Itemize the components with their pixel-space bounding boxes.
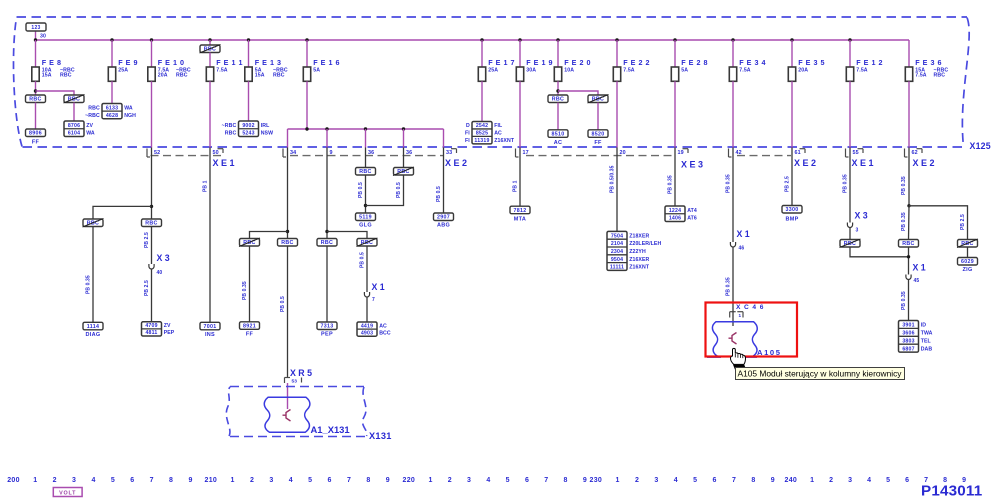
svg-text:3: 3	[654, 477, 658, 484]
svg-text:9: 9	[188, 477, 192, 484]
svg-text:~RBC: ~RBC	[222, 123, 237, 129]
connector symbol inside A105	[729, 333, 737, 345]
wire fuse output to connector	[908, 81, 910, 147]
svg-text:RBC: RBC	[361, 240, 373, 246]
fuse FE28 drop from bus	[673, 38, 676, 41]
connector XE3 dashed link	[526, 155, 676, 157]
svg-text:8: 8	[564, 477, 568, 484]
svg-text:19: 19	[678, 150, 684, 156]
svg-text:1: 1	[810, 477, 814, 484]
svg-text:2: 2	[829, 477, 833, 484]
svg-text:4: 4	[289, 477, 293, 484]
node 8921 FF	[240, 322, 260, 330]
nodes engine variants FE22	[607, 231, 627, 270]
wire FE9 output	[111, 81, 113, 103]
svg-text:2: 2	[635, 477, 639, 484]
svg-text:PEP: PEP	[321, 332, 333, 338]
wire branch right to ~RBC ZIG	[909, 206, 968, 240]
wire branch to ~RBC (FE20)	[558, 91, 598, 95]
svg-text:WA: WA	[86, 131, 95, 137]
wire ~RBC join to FE36 column	[850, 247, 909, 257]
svg-text:PEP: PEP	[164, 330, 175, 336]
svg-text:RBC: RBC	[902, 241, 914, 247]
node 7313 PEP	[317, 322, 337, 330]
fuse FE12 symbol	[846, 67, 853, 81]
option box RBC (pin9 main)	[317, 239, 337, 247]
svg-text:3300: 3300	[786, 207, 799, 213]
svg-text:240: 240	[785, 477, 798, 484]
svg-text:X 3: X 3	[855, 211, 868, 221]
svg-text:7.5A: 7.5A	[915, 73, 927, 79]
svg-text:5A: 5A	[681, 67, 688, 73]
svg-text:2: 2	[53, 477, 57, 484]
option box RBC (FE10 main)	[142, 219, 162, 227]
wire pin50 down	[209, 148, 211, 323]
svg-text:RBC: RBC	[29, 97, 41, 103]
wire fuse output to connector	[674, 81, 676, 147]
nodes 9002 IRL / 5243 NSW	[239, 121, 259, 137]
svg-text:1: 1	[231, 477, 235, 484]
wire pin9 down	[326, 148, 328, 239]
svg-text:9: 9	[330, 150, 333, 156]
node 1114 DIAG	[83, 322, 103, 330]
svg-text:X 1: X 1	[913, 263, 926, 273]
svg-text:3803: 3803	[902, 338, 914, 344]
wire drop to XE2	[326, 129, 328, 148]
svg-text:X C 4 6: X C 4 6	[736, 304, 764, 311]
pin 42 XE2	[728, 149, 730, 158]
wire RBC to 5119	[365, 175, 367, 213]
node 8906 FF	[26, 129, 46, 137]
svg-text:BCC: BCC	[379, 330, 391, 336]
module blob A1_X131	[264, 397, 310, 432]
svg-text:RBC: RBC	[204, 47, 216, 53]
fuse FE20 drop from bus	[556, 38, 559, 41]
wire fuse output to connector	[616, 81, 618, 147]
wire RBC to 7313	[326, 246, 328, 322]
wire pin52 down	[151, 148, 153, 220]
svg-text:36: 36	[368, 150, 374, 156]
svg-text:X 1: X 1	[372, 282, 385, 292]
svg-text:6133: 6133	[106, 105, 118, 111]
svg-text:PB 0.35: PB 0.35	[901, 176, 907, 195]
wire ~RBC merge to 36a	[366, 175, 404, 206]
svg-text:7: 7	[544, 477, 548, 484]
svg-text:F E 2 2: F E 2 2	[623, 58, 650, 67]
wire ~RBC to X1	[366, 246, 368, 292]
wire pin17 down	[519, 148, 521, 207]
wire RBC to X1	[908, 247, 910, 275]
junction FE36 branch	[907, 204, 910, 207]
wire fuse output to connector	[519, 81, 521, 147]
fuse FE8 drop from bus	[34, 38, 37, 41]
svg-text:F E 1 3: F E 1 3	[255, 58, 282, 67]
svg-text:ABG: ABG	[437, 223, 450, 229]
svg-text:8510: 8510	[552, 132, 565, 138]
fuse FE22 drop from bus	[615, 38, 618, 41]
svg-text:PB 0.35: PB 0.35	[668, 175, 674, 194]
highlight box around A105	[706, 303, 798, 357]
svg-text:RBC: RBC	[243, 240, 255, 246]
svg-text:F E 1 7: F E 1 7	[488, 58, 515, 67]
junction on FE16 bar	[402, 127, 405, 130]
svg-text:PB 2.5: PB 2.5	[960, 214, 966, 230]
svg-text:2: 2	[250, 477, 254, 484]
option box ~RBC (pin9 branch)	[357, 239, 377, 247]
wire XC46 bracket	[729, 312, 731, 318]
svg-text:PB 0.35: PB 0.35	[726, 174, 732, 193]
svg-text:17: 17	[523, 150, 529, 156]
svg-text:GLG: GLG	[359, 223, 372, 229]
svg-text:230: 230	[590, 477, 603, 484]
nodes 2542 FIL / 8525 AC / 11319 Z16XNT	[472, 122, 492, 144]
svg-text:~RBC: ~RBC	[85, 113, 100, 119]
node 2907 ABG	[434, 213, 454, 221]
pin 52 XE1	[146, 149, 148, 158]
svg-text:61: 61	[795, 150, 801, 156]
wire RBC to XR5	[287, 246, 289, 377]
svg-text:RBC: RBC	[145, 221, 157, 227]
svg-text:F E 9: F E 9	[118, 58, 138, 67]
fuse FE10 drop from bus	[150, 38, 153, 41]
wire X1 to radio nodes	[908, 280, 910, 321]
svg-text:X E 3: X E 3	[681, 160, 703, 170]
svg-text:8: 8	[366, 477, 370, 484]
wire FE20 output	[557, 81, 559, 95]
wire bus terminal 30	[36, 39, 910, 41]
fuse FE17 symbol	[478, 67, 485, 81]
wire X1 to 4419	[366, 298, 368, 323]
svg-text:52: 52	[154, 150, 160, 156]
svg-text:AC: AC	[554, 140, 563, 146]
pin 17 XE3	[515, 149, 517, 158]
svg-text:BMP: BMP	[785, 217, 798, 223]
svg-text:RBC: RBC	[592, 97, 604, 103]
svg-text:1114: 1114	[87, 324, 99, 330]
svg-text:FF: FF	[246, 332, 254, 338]
svg-text:RBC: RBC	[359, 169, 371, 175]
svg-text:7.5A: 7.5A	[739, 67, 751, 73]
svg-text:RBC: RBC	[60, 73, 72, 79]
junction FE16 bar	[305, 127, 308, 130]
svg-text:F E 3 6: F E 3 6	[915, 58, 942, 67]
wire ~RBC to 8921	[249, 246, 251, 322]
svg-text:ZIG: ZIG	[962, 267, 972, 273]
svg-text:RBC: RBC	[87, 221, 99, 227]
svg-text:4628: 4628	[106, 113, 118, 119]
svg-text:PB 0.35: PB 0.35	[86, 275, 92, 294]
wire RBC to 8906	[35, 103, 37, 130]
svg-text:7812: 7812	[514, 208, 527, 214]
svg-text:Z22YH: Z22YH	[629, 249, 646, 255]
nodes 3901 ID / 3606 TWA / 3803 TEL / 6807 DAB	[899, 321, 919, 353]
svg-text:25A: 25A	[488, 67, 498, 73]
svg-text:6029: 6029	[961, 259, 974, 265]
svg-text:20A: 20A	[798, 67, 808, 73]
nodes 4709 ZV / 4811 PEP	[142, 322, 162, 336]
svg-text:AC: AC	[494, 131, 502, 137]
svg-text:6: 6	[130, 477, 134, 484]
svg-text:RBC: RBC	[273, 73, 285, 79]
pin 34 XE2	[282, 149, 284, 158]
blue dashes below A105	[707, 356, 721, 358]
wire branch to ~RBC option	[36, 91, 75, 95]
svg-text:7001: 7001	[204, 324, 217, 330]
wire pin20 down	[616, 148, 618, 232]
svg-text:X E 1: X E 1	[852, 158, 874, 168]
svg-text:7: 7	[372, 297, 375, 303]
svg-text:10A: 10A	[564, 67, 574, 73]
fuse FE9 drop from bus	[110, 38, 113, 41]
svg-text:11111: 11111	[610, 265, 624, 271]
svg-text:6104: 6104	[68, 131, 80, 137]
svg-text:TWA: TWA	[921, 331, 933, 337]
svg-text:9: 9	[771, 477, 775, 484]
svg-text:34: 34	[290, 150, 296, 156]
svg-text:220: 220	[403, 477, 416, 484]
svg-text:30A: 30A	[526, 67, 536, 73]
svg-text:7: 7	[732, 477, 736, 484]
wire pin33 down	[443, 148, 445, 214]
svg-text:5: 5	[308, 477, 312, 484]
svg-text:2304: 2304	[611, 249, 623, 255]
svg-text:PB 0.35: PB 0.35	[901, 212, 907, 231]
svg-text:PB 1: PB 1	[203, 180, 209, 192]
nodes 4419 AC / 4903 BCC	[357, 322, 377, 336]
svg-text:55: 55	[853, 150, 859, 156]
fuse FE8 symbol	[32, 67, 39, 81]
svg-text:F E 1 0: F E 1 0	[158, 58, 185, 67]
svg-text:3: 3	[848, 477, 852, 484]
svg-text:4: 4	[674, 477, 678, 484]
fuse FE16 symbol	[303, 67, 310, 81]
svg-text:20: 20	[620, 150, 626, 156]
fuse FE16 drop from bus	[305, 38, 308, 41]
svg-text:FI: FI	[465, 131, 470, 137]
svg-text:PB 0.35: PB 0.35	[901, 291, 907, 310]
svg-text:8706: 8706	[68, 123, 80, 129]
junction FE12 join	[907, 255, 910, 258]
svg-text:3: 3	[856, 228, 859, 234]
option box RBC (FE36 main)	[899, 240, 919, 248]
junction 36 merge	[364, 204, 367, 207]
svg-text:RBC: RBC	[281, 240, 293, 246]
junction pin9 branch	[325, 230, 328, 233]
wire fuse output to connector	[732, 81, 734, 147]
svg-text:7: 7	[347, 477, 351, 484]
svg-text:4419: 4419	[361, 323, 373, 329]
svg-text:PB 0.5: PB 0.5	[436, 186, 442, 202]
fuse FE36 drop from bus	[908, 40, 910, 67]
svg-text:6: 6	[525, 477, 529, 484]
svg-text:Z18XER: Z18XER	[629, 233, 649, 239]
fuse FE20 symbol	[554, 67, 561, 81]
wire FE13 output	[248, 81, 250, 121]
wire FE16 output to distribution bar	[306, 81, 308, 129]
svg-text:PB 0.5: PB 0.5	[280, 296, 286, 312]
svg-text:40: 40	[157, 270, 163, 276]
node 6029 ZIG	[958, 258, 978, 266]
svg-text:FI: FI	[465, 138, 470, 144]
wire into A105	[732, 312, 734, 327]
svg-text:PB 2.5: PB 2.5	[144, 232, 150, 248]
svg-text:D: D	[466, 123, 470, 129]
svg-text:11319: 11319	[474, 138, 489, 144]
svg-text:F E 1 1: F E 1 1	[216, 58, 243, 67]
svg-text:FIL: FIL	[494, 123, 503, 129]
svg-text:PB 2.5: PB 2.5	[144, 280, 150, 296]
svg-text:PB 1: PB 1	[513, 180, 519, 192]
connector XE2 dashed link	[290, 155, 444, 157]
fuse FE19 drop from bus	[518, 38, 521, 41]
fuse FE35 symbol	[788, 67, 795, 81]
svg-text:5243: 5243	[242, 131, 254, 137]
svg-text:5: 5	[111, 477, 115, 484]
wire RBC to 8510	[557, 103, 559, 130]
svg-text:7313: 7313	[321, 324, 334, 330]
svg-text:Z20LER/LEH: Z20LER/LEH	[629, 241, 661, 247]
svg-text:123: 123	[31, 25, 40, 31]
svg-text:P143011: P143011	[921, 483, 983, 500]
svg-text:46: 46	[739, 246, 745, 252]
junction on FE16 bar	[325, 127, 328, 130]
wire pin19 down	[674, 148, 676, 207]
option box ~RBC (diag)	[83, 219, 103, 227]
wire FE36 main down	[908, 206, 911, 240]
svg-text:F E 3 4: F E 3 4	[739, 58, 766, 67]
svg-text:AT6: AT6	[687, 216, 697, 222]
svg-text:VOLT: VOLT	[59, 491, 76, 497]
connector XE1 dashed link	[151, 155, 225, 157]
svg-text:2: 2	[448, 477, 452, 484]
wire drop to XE2	[403, 129, 405, 148]
wire X1 to XC46	[732, 248, 734, 312]
svg-text:A105 Moduł sterujący w kolumny: A105 Moduł sterujący w kolumny kierownic…	[738, 370, 903, 379]
svg-text:6: 6	[905, 477, 909, 484]
svg-text:7.5A: 7.5A	[856, 67, 868, 73]
fuse box X125 dashed border	[17, 16, 968, 18]
svg-text:FF: FF	[594, 140, 602, 146]
svg-text:TEL: TEL	[921, 338, 932, 344]
fuse FE36 symbol	[905, 67, 912, 81]
svg-text:3: 3	[72, 477, 76, 484]
wire FE8 output	[35, 81, 37, 95]
svg-text:F E 3 5: F E 3 5	[798, 58, 825, 67]
fuse FE9 symbol	[108, 67, 115, 81]
svg-text:200: 200	[7, 477, 20, 484]
svg-text:PB 0.35: PB 0.35	[843, 174, 849, 193]
svg-text:PB 0.5: PB 0.5	[358, 182, 364, 198]
wire FE16 distribution bar	[288, 128, 444, 130]
option box ~RBC (FE8)	[64, 95, 84, 103]
wire X3 to 4709	[151, 270, 153, 322]
svg-text:8: 8	[751, 477, 755, 484]
svg-text:15A: 15A	[255, 73, 265, 79]
svg-text:Z16XNT: Z16XNT	[494, 138, 515, 144]
svg-text:9504: 9504	[611, 257, 623, 263]
junction on FE16 bar	[364, 127, 367, 130]
svg-text:RBC: RBC	[844, 241, 856, 247]
fuse FE13 drop from bus	[247, 38, 250, 41]
svg-text:PB 0.35: PB 0.35	[242, 281, 248, 300]
svg-text:6: 6	[713, 477, 717, 484]
volt box	[53, 488, 82, 497]
wire fuse output to connector	[151, 81, 153, 147]
wire ~RBC to 8520	[597, 103, 599, 130]
svg-text:RBC: RBC	[552, 97, 564, 103]
pin 62 XE2	[904, 149, 906, 158]
wire pin61 down	[791, 148, 793, 206]
option box ~RBC on FE11 feed	[200, 45, 220, 53]
svg-text:IRL: IRL	[261, 123, 270, 129]
svg-text:INS: INS	[205, 332, 215, 338]
svg-text:ZV: ZV	[86, 123, 93, 129]
svg-text:1: 1	[616, 477, 620, 484]
fuse FE13 symbol	[245, 67, 252, 81]
fuse FE17 drop from bus	[480, 38, 483, 41]
option box RBC (FE8)	[26, 95, 46, 103]
wire drop to XE2	[287, 129, 289, 148]
wire branch right to ~RBC	[327, 232, 367, 239]
svg-text:8520: 8520	[592, 132, 605, 138]
wire RBC to X3	[151, 227, 153, 265]
svg-text:1: 1	[33, 477, 37, 484]
wire ~RBC to 8706	[73, 103, 75, 122]
fuse FE22 symbol	[613, 67, 620, 81]
svg-text:4: 4	[91, 477, 95, 484]
svg-text:5: 5	[886, 477, 890, 484]
option box RBC (pin34 main)	[278, 239, 298, 247]
wire pin36b down	[403, 148, 405, 168]
svg-text:62: 62	[912, 150, 918, 156]
wire into X131	[287, 383, 289, 409]
option box ~RBC (FE12)	[840, 240, 860, 248]
fuse FE28 symbol	[671, 67, 678, 81]
fuse FE12 drop from bus	[848, 38, 851, 41]
wire branch left to ~RBC FF	[250, 232, 288, 239]
svg-text:X E 2: X E 2	[913, 158, 935, 168]
wire drop to XE2	[443, 129, 445, 148]
svg-text:PB 0.5/0.35: PB 0.5/0.35	[610, 165, 616, 193]
svg-text:F E 1 6: F E 1 6	[313, 58, 340, 67]
svg-text:9: 9	[386, 477, 390, 484]
svg-text:DIAG: DIAG	[86, 332, 101, 338]
svg-text:5119: 5119	[359, 215, 372, 221]
svg-text:PB 2.5: PB 2.5	[785, 176, 791, 192]
svg-text:4709: 4709	[145, 323, 157, 329]
svg-text:Z16XNT: Z16XNT	[629, 265, 650, 271]
pin 55 XE1	[845, 149, 847, 158]
module blob A105	[712, 322, 757, 357]
fuse FE19 symbol	[516, 67, 523, 81]
svg-text:4811: 4811	[145, 330, 157, 336]
wire pin36a down	[365, 148, 367, 168]
fuse FE35 drop from bus	[790, 38, 793, 41]
wire fuse output to connector	[791, 81, 793, 147]
node 123 terminal 30 feed	[35, 31, 37, 40]
svg-text:F E 1 2: F E 1 2	[856, 58, 883, 67]
fuse FE10 symbol	[148, 67, 155, 81]
junction FE8 branch	[34, 89, 37, 92]
svg-text:X E 2: X E 2	[445, 158, 467, 168]
svg-text:7.5A: 7.5A	[216, 67, 228, 73]
svg-text:RBC: RBC	[88, 105, 100, 111]
svg-text:3606: 3606	[902, 331, 914, 337]
fuse FE34 drop from bus	[731, 38, 734, 41]
svg-text:RBC: RBC	[176, 73, 188, 79]
wire X3 to ~RBC	[849, 228, 851, 240]
svg-text:50: 50	[213, 150, 219, 156]
